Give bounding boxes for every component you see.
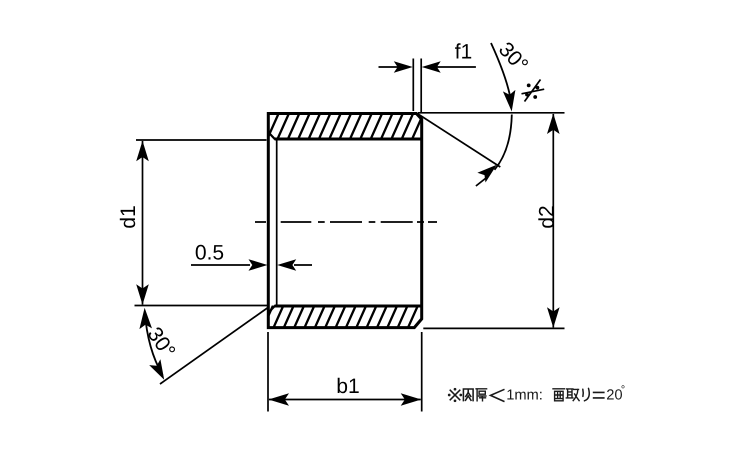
- 30deg arc upper (top-right): [491, 43, 511, 103]
- d2 extension line top: [418, 112, 565, 114]
- note: fullwidth equals: [593, 392, 605, 398]
- 30deg arc lower (top-right): [495, 115, 512, 170]
- label 30deg bottom-left: [147, 326, 176, 359]
- label f1: [455, 43, 471, 58]
- label b1: [338, 378, 359, 393]
- note: reference mark small: [448, 388, 462, 402]
- bore top surface: [275, 138, 422, 141]
- arc arrow up at horizontal line: [139, 308, 152, 329]
- label 0.5: [196, 245, 224, 260]
- d2 dimension line: [552, 114, 554, 327]
- hatching bottom wall: [263, 306, 429, 330]
- d2 arrow up: [547, 114, 560, 135]
- f1 arrow pointing left: [422, 61, 441, 73]
- bore bottom surface: [275, 305, 422, 308]
- f1 dimension line left segment: [379, 66, 408, 68]
- label d2: [538, 206, 553, 227]
- 0.5 leader line: [191, 264, 250, 266]
- arc arrow down-right at diagonal: [149, 359, 164, 380]
- leader tail below arrow: [476, 177, 488, 186]
- note: kanji atsu (thick): [476, 389, 487, 401]
- center line: [255, 221, 437, 223]
- d2 extension line bottom: [423, 327, 564, 329]
- arc arrow down at horizontal line: [503, 90, 516, 112]
- note: fullwidth less-than: [491, 389, 505, 401]
- bushing outer outline: [268, 114, 421, 328]
- note: 20: [607, 389, 622, 399]
- note: kanji niku (meat/thickness): [463, 389, 473, 401]
- label d1: [120, 206, 135, 228]
- 30deg arc bottom-left: [145, 312, 163, 375]
- f1 dimension line right segment: [427, 66, 476, 68]
- 0.5 arrow pointing right at face: [249, 259, 268, 271]
- b1 arrow right: [401, 393, 422, 406]
- reference mark (rotated) near top 30deg: [522, 80, 545, 102]
- note: 1mm:: [507, 390, 541, 400]
- b1 dimension line: [269, 399, 421, 401]
- 0.5 arrow pointing left at chamfer line: [277, 259, 296, 271]
- bore chamfer bottom-left: [269, 306, 275, 312]
- b1 extension line left: [267, 332, 269, 412]
- d1 arrow down: [136, 284, 149, 305]
- d1 and 30deg shared extension line bottom: [135, 305, 269, 307]
- label 30deg top-right: [498, 41, 529, 73]
- chamfer edge line in bore: [276, 140, 278, 305]
- note: kanji tori (take): [566, 389, 579, 401]
- d2 arrow down: [547, 307, 560, 328]
- chamfer construction diagonal bottom-left: [160, 308, 268, 385]
- b1 arrow left: [269, 393, 290, 406]
- hatching top wall: [257, 114, 434, 140]
- note: kanji men (surface): [553, 389, 565, 401]
- note: hiragana ri: [583, 388, 589, 400]
- f1 arrow pointing right: [394, 61, 413, 73]
- f1 extension line right: [420, 59, 422, 114]
- chamfer construction diagonal top-right: [417, 113, 501, 167]
- 0.5 inner line: [294, 264, 312, 266]
- f1 extension line left: [412, 59, 414, 112]
- note: degree: [622, 385, 625, 388]
- d1 dimension line: [142, 141, 144, 305]
- b1 extension line right: [421, 332, 423, 412]
- bore chamfer top-left: [269, 133, 275, 139]
- arc arrow pointing up-right at diagonal: [477, 165, 496, 183]
- d1 extension line top: [136, 139, 267, 141]
- d1 arrow up: [136, 141, 149, 162]
